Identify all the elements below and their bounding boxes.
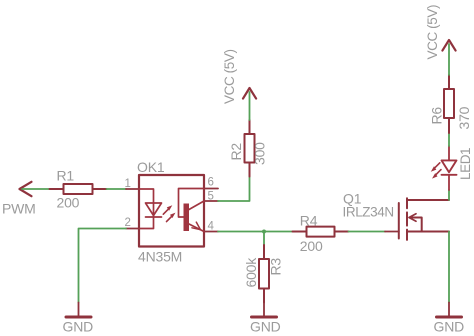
svg-text:GND: GND	[63, 319, 94, 335]
wire PWM to R1	[22, 188, 50, 190]
wire OK1 pin5 to R2	[218, 177, 250, 202]
supply VCC (5V) arrow left	[243, 88, 256, 99]
optocoupler OK1 box	[139, 175, 204, 247]
svg-text:5: 5	[208, 191, 214, 203]
svg-text:GND: GND	[434, 319, 465, 335]
svg-text:OK1: OK1	[137, 159, 165, 175]
svg-text:LED1: LED1	[458, 148, 473, 180]
junction node	[262, 230, 266, 234]
svg-text:R4: R4	[300, 213, 318, 229]
svg-text:R3: R3	[268, 258, 284, 276]
svg-text:4: 4	[208, 220, 215, 232]
wire R6 to VCC	[448, 44, 450, 75]
svg-text:6: 6	[208, 176, 214, 188]
svg-text:4N35M: 4N35M	[138, 249, 182, 265]
svg-text:1: 1	[125, 178, 131, 190]
wire OK1 pin4 to R4	[218, 231, 293, 233]
svg-text:VCC (5V): VCC (5V)	[222, 49, 237, 104]
wire LED1 to R6	[448, 133, 450, 146]
PWM input arrow	[20, 182, 32, 196]
svg-text:370: 370	[456, 106, 472, 129]
svg-text:200: 200	[57, 195, 80, 211]
wire Q1 drain to LED1	[448, 190, 450, 200]
svg-text:VCC (5V): VCC (5V)	[425, 5, 440, 60]
svg-text:GND: GND	[250, 319, 281, 335]
svg-text:2: 2	[125, 217, 131, 229]
ground GND (right)	[437, 303, 462, 318]
resistor R4	[293, 227, 349, 237]
ground GND (left)	[66, 303, 91, 318]
OK1 pin 6 stub (n.c.)	[204, 188, 218, 190]
OK1 pin 2 stub	[126, 228, 139, 230]
resistor R6	[444, 75, 454, 133]
OK1 internal LED	[139, 189, 162, 229]
LED1 light arrows	[431, 163, 441, 179]
wire R4 to Q1 gate	[349, 231, 386, 233]
svg-text:R6: R6	[429, 107, 445, 125]
OK1 pin 1 stub	[126, 188, 139, 190]
svg-text:300: 300	[252, 142, 268, 165]
wire OK1 pin2 to GND	[79, 229, 127, 303]
diode LED1	[442, 146, 457, 190]
transistor Q1 MOSFET	[385, 198, 449, 240]
svg-text:IRLZ34N: IRLZ34N	[343, 205, 394, 220]
svg-text:R2: R2	[228, 143, 244, 161]
OK1 pin 4 stub	[204, 231, 218, 233]
svg-text:PWM: PWM	[2, 201, 36, 217]
OK1 pin 5 stub	[204, 200, 218, 202]
resistor R2	[245, 120, 255, 177]
wire R1 to OK1 pin1	[107, 188, 127, 190]
OK1 light arrows	[163, 205, 175, 221]
svg-text:600k: 600k	[243, 257, 259, 288]
ground GND (middle)	[252, 303, 277, 318]
svg-text:200: 200	[300, 238, 323, 254]
supply VCC (5V) arrow right	[442, 40, 455, 51]
OK1 phototransistor	[179, 189, 205, 232]
resistor R1	[50, 184, 107, 194]
wire junction to R3	[263, 232, 265, 246]
wire Q1 source to GND	[448, 232, 450, 303]
resistor R3	[259, 245, 269, 303]
svg-text:R1: R1	[57, 168, 75, 184]
wire R2 to VCC	[249, 92, 251, 120]
